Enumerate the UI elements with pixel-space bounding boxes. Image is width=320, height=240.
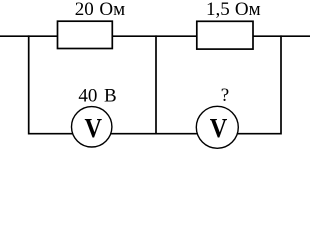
voltmeter PV1 (72, 107, 112, 147)
svg-text:40: 40 (78, 86, 97, 107)
resistor R1 (58, 21, 113, 48)
svg-text:20: 20 (75, 0, 94, 20)
label: R2 value 1,5 Ом (206, 0, 261, 20)
svg-text:V: V (85, 113, 103, 143)
label: PV2 reading ? (221, 85, 229, 106)
wire: right vertical drop (280, 35, 282, 134)
svg-text:V: V (210, 113, 228, 143)
svg-text:Ом: Ом (235, 0, 261, 20)
svg-text:?: ? (221, 85, 229, 106)
voltmeter PV2 (196, 106, 238, 148)
svg-text:Ом: Ом (99, 0, 125, 20)
label: PV1 reading 40 В (78, 86, 116, 107)
wire: left vertical drop (28, 35, 30, 134)
svg-text:1,5: 1,5 (206, 0, 230, 20)
resistor R2 (197, 21, 253, 49)
wire: bottom horizontal return (29, 133, 281, 135)
wire: middle vertical drop (155, 35, 157, 134)
svg-text:В: В (104, 86, 117, 107)
label: R1 value 20 Ом (75, 0, 125, 20)
wire: top horizontal bus (0, 35, 310, 37)
